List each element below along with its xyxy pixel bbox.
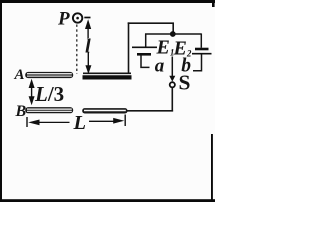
length arrow L (double-headed with end ticks, below rod B) xyxy=(27,115,125,128)
distance arrow L/3 (double-headed, between rod A and rod B) xyxy=(29,79,35,106)
svg-text:A: A xyxy=(14,67,25,83)
battery E1 short plate xyxy=(137,53,151,56)
switch S terminal circle xyxy=(170,82,175,87)
battery E2 short plate xyxy=(195,48,209,51)
dashed guide line from P down to upper rail xyxy=(76,25,78,75)
battery E1 long plate xyxy=(132,46,157,48)
wire: top horizontal xyxy=(128,22,174,24)
upper rail (fixed conductor) xyxy=(83,73,132,77)
junction dot xyxy=(170,31,176,37)
wire: left vertical (upper rail to top wire) xyxy=(128,22,130,74)
wire: bottom horizontal to lower rail xyxy=(127,110,173,112)
wire: inner horizontal battery bus xyxy=(145,33,202,35)
svg-text:a: a xyxy=(155,56,165,77)
wire: E1 riser xyxy=(145,34,147,47)
lower rail (fixed conductor) xyxy=(82,108,127,113)
svg-text:l: l xyxy=(85,35,91,57)
svg-text:B: B xyxy=(15,103,27,120)
rod A (striped bar) xyxy=(25,72,73,78)
distance arrow l (double-headed, with top tick) xyxy=(84,18,91,75)
svg-text:P: P xyxy=(57,9,70,30)
wire: from switch circle down xyxy=(171,88,173,112)
rod B (striped bar) xyxy=(25,107,73,113)
wire: short drop from top wire to junction xyxy=(172,23,174,33)
field-out-of-page symbol (circle with dot) at P xyxy=(73,13,82,22)
wire: E2 descender with hook to terminal b xyxy=(193,55,202,71)
battery E2 long plate xyxy=(192,53,212,55)
wire: E2 riser xyxy=(200,34,202,48)
svg-text:L/3: L/3 xyxy=(34,82,64,106)
svg-text:S: S xyxy=(179,71,191,95)
svg-text:L: L xyxy=(73,112,87,134)
switch S blade wire with down arrowhead xyxy=(169,57,175,82)
wire: E1 descender with hook to terminal a xyxy=(141,56,150,68)
